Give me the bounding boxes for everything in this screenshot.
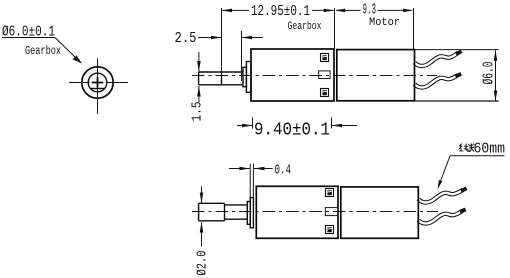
- wire 1 tip lower: [460, 187, 467, 193]
- svg-text:Ø2.0: Ø2.0: [195, 251, 211, 276]
- leader arrowhead wire: [438, 180, 443, 189]
- shaft bottom lower: [199, 220, 225, 222]
- center cross dash horizontal: [92, 82, 104, 84]
- shaft step / extension line 12.95 left: [221, 8, 223, 85]
- dimension Ø6.0 vertical line: [495, 50, 497, 101]
- svg-text:12.95±0.1: 12.95±0.1: [251, 3, 310, 20]
- wire 2 lower: [418, 211, 462, 224]
- motor body: [337, 50, 415, 101]
- wire 2 tip: [455, 72, 462, 78]
- motor body lower: [341, 187, 419, 238]
- dimension 12.95±0.1: [222, 9, 250, 11]
- shaft step lower: [224, 203, 226, 221]
- svg-text:0.4: 0.4: [275, 163, 292, 179]
- flange plate lower: [250, 198, 253, 228]
- svg-text:Gearbox: Gearbox: [288, 21, 322, 33]
- motor shaft tab lower: [325, 208, 338, 216]
- shaft section 2 top: [225, 204, 248, 206]
- extension line 2.5 right: [241, 31, 243, 81]
- shaft left end lower: [198, 203, 200, 221]
- vertical centerline: [97, 59, 99, 115]
- svg-text:60mm: 60mm: [474, 142, 506, 158]
- leader line: [55, 38, 79, 61]
- gearbox body: [251, 49, 334, 101]
- collar: [243, 67, 246, 86]
- extension line gearbox/motor top: [334, 8, 336, 49]
- dimension 9.40±0.1: [237, 125, 253, 127]
- svg-text:1.5: 1.5: [191, 102, 206, 122]
- gearbox body lower: [256, 186, 338, 238]
- dimension 0.4: [229, 168, 250, 170]
- shaft top lower: [199, 202, 225, 204]
- leader wire: [439, 156, 451, 187]
- collar lower: [247, 202, 250, 225]
- center cross dash vertical: [97, 77, 99, 87]
- leader arrowhead: [73, 55, 82, 63]
- inner circle (shaft): [88, 73, 107, 92]
- wire 1 tip: [455, 50, 462, 56]
- shaft section 2 bottom: [225, 218, 248, 220]
- horizontal centerline: [69, 82, 90, 84]
- wire 2 tip lower: [459, 208, 466, 214]
- wire 1 upper: [415, 53, 459, 66]
- wire 2 upper: [415, 75, 458, 87]
- shaft section 2 end: [246, 205, 248, 219]
- extension line motor bottom right: [415, 100, 499, 102]
- svg-text:Motor: Motor: [369, 17, 400, 29]
- extension line motor right top: [413, 8, 415, 50]
- wire 1 lower: [418, 190, 463, 203]
- centerline: [192, 75, 437, 77]
- extension line motor top right: [415, 49, 499, 51]
- terminal mark bottom lower: [327, 227, 331, 232]
- flange plate: [246, 62, 251, 93]
- centerline lower: [192, 211, 438, 213]
- shaft flat chord: [90, 88, 104, 90]
- dimension 9.3: [337, 9, 361, 11]
- terminal square top: [321, 54, 329, 62]
- dimension 1.5: [198, 52, 200, 72]
- shaft top: [199, 71, 243, 73]
- dimension Ø2.0: [201, 187, 203, 204]
- label underline wire: [450, 155, 505, 157]
- outer circle (flange boss): [82, 67, 113, 98]
- label underline: [2, 37, 55, 39]
- motor shaft tab: [319, 71, 330, 79]
- terminal mark top: [322, 55, 326, 60]
- label 线长 (drawn strokes): [459, 143, 474, 152]
- shaft left end: [198, 72, 200, 85]
- terminal square bottom: [321, 89, 329, 97]
- svg-text:9.40±0.1: 9.40±0.1: [254, 121, 330, 141]
- terminal square bottom lower: [326, 226, 334, 234]
- svg-text:Ø6.0: Ø6.0: [481, 62, 498, 85]
- svg-text:2.5: 2.5: [175, 31, 197, 47]
- svg-text:Gearbox: Gearbox: [25, 45, 61, 58]
- svg-text:9.3: 9.3: [363, 2, 377, 19]
- terminal mark top lower: [327, 190, 331, 195]
- terminal mark bottom: [322, 90, 326, 95]
- terminal square top lower: [326, 189, 334, 197]
- shaft bottom: [199, 84, 243, 86]
